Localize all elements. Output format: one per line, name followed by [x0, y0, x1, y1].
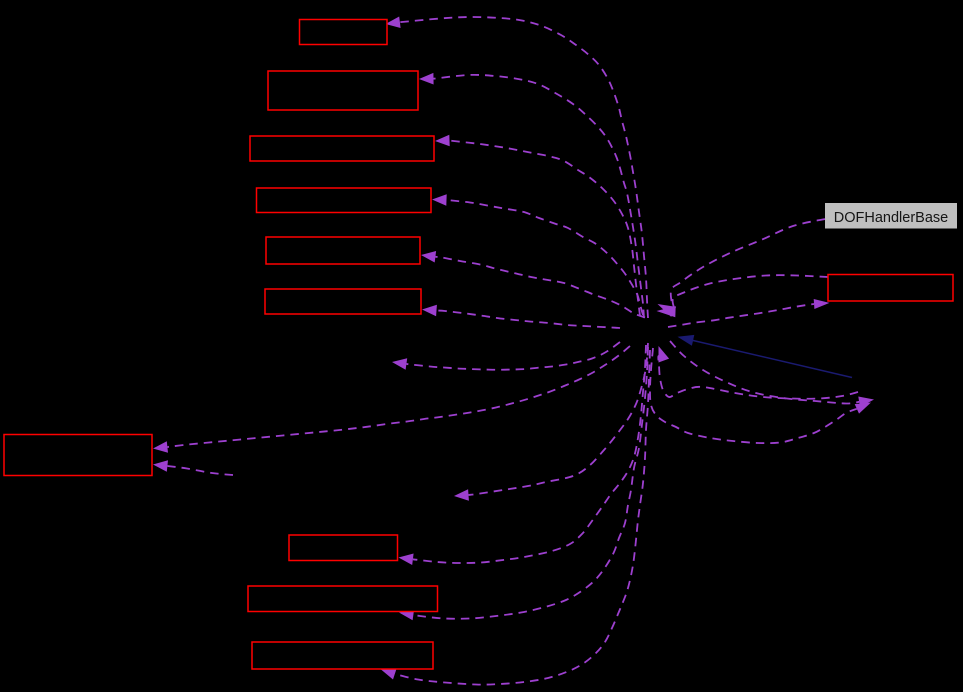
svg-text:DOFHandlerBase: DOFHandlerBase: [834, 210, 948, 226]
